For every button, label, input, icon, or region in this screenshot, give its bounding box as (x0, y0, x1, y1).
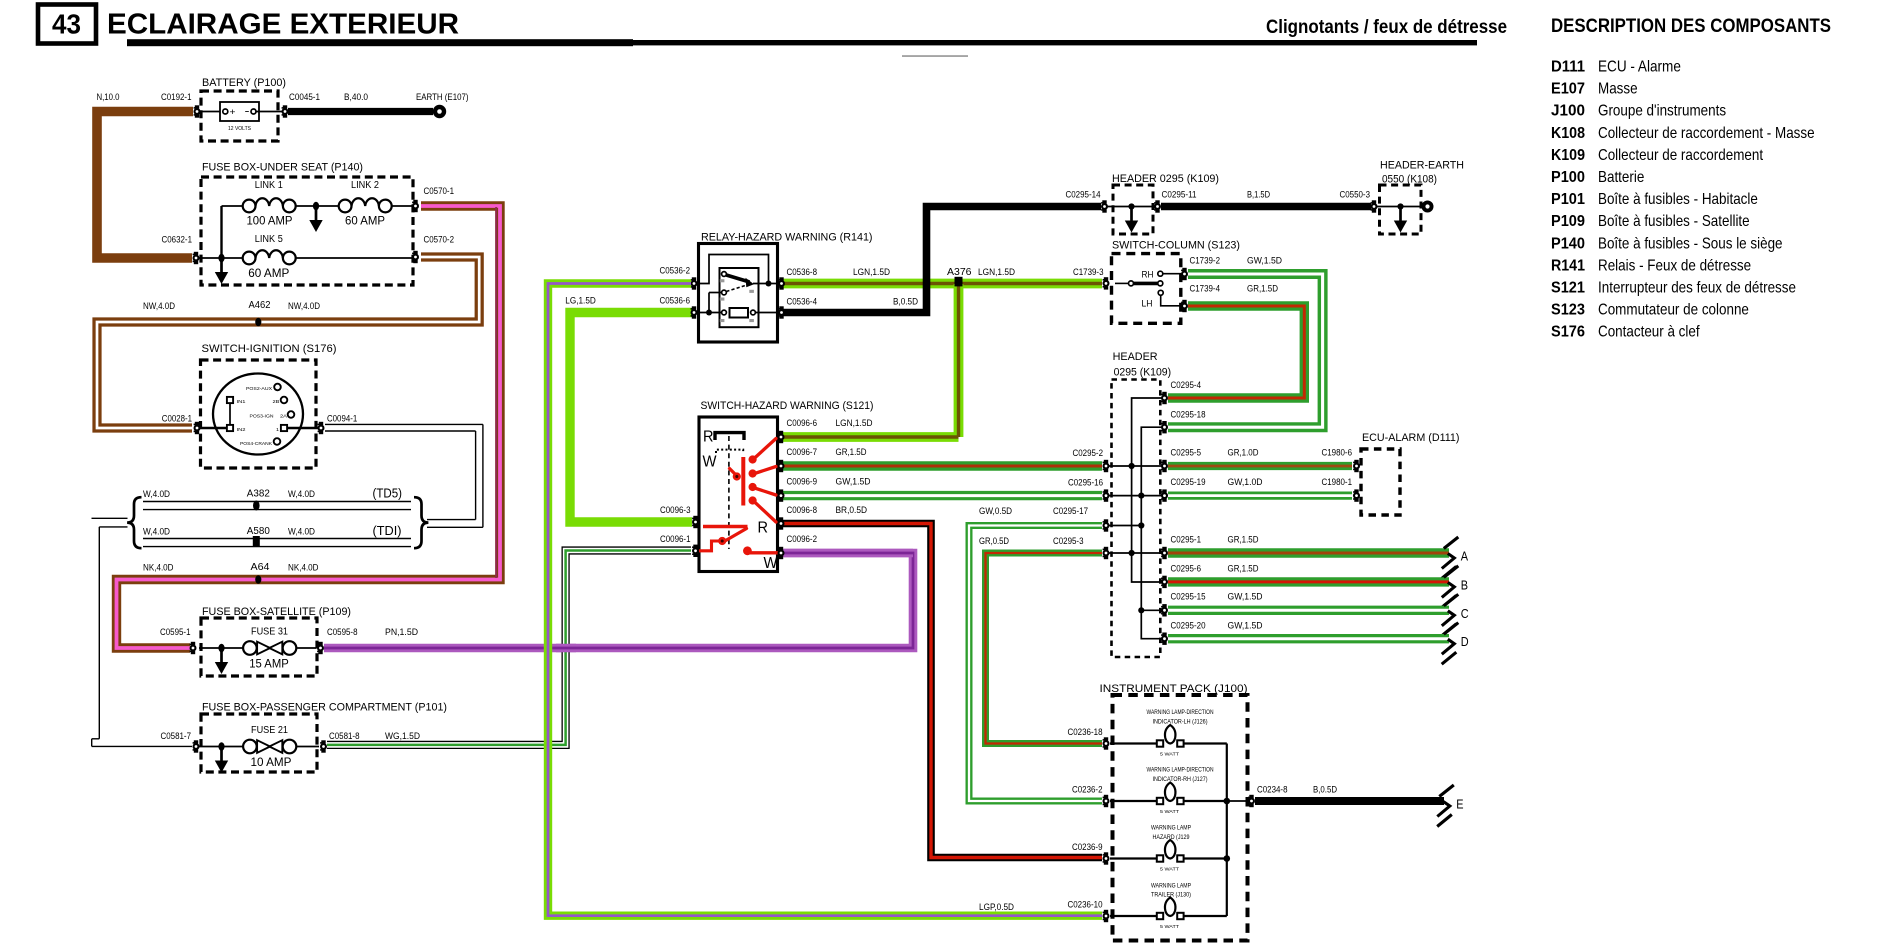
svg-text:E107: E107 (1551, 81, 1585, 98)
node A382 (253, 501, 260, 511)
svg-text:Commutateur de colonne: Commutateur de colonne (1598, 302, 1749, 319)
connector C1739-4 (1181, 300, 1188, 312)
connector C1739-3 (1103, 277, 1110, 289)
wire NK vertical blend edge (495, 207, 497, 578)
svg-text:EARTH (E107): EARTH (E107) (416, 92, 469, 102)
svg-text:LH: LH (1142, 299, 1153, 309)
node A462 (255, 318, 261, 327)
svg-text:POS2-AUX: POS2-AUX (246, 386, 272, 391)
svg-text:GW,1.5D: GW,1.5D (1228, 592, 1263, 602)
connector C0536-6 (691, 306, 698, 318)
svg-text:C0570-1: C0570-1 (424, 186, 455, 196)
connector C0581-7 (193, 740, 200, 752)
svg-text:Collecteur de raccordement - M: Collecteur de raccordement - Masse (1598, 125, 1815, 142)
off-page arrow B (1442, 566, 1459, 608)
svg-text:GW,1.5D: GW,1.5D (1247, 256, 1282, 266)
svg-text:C0550-3: C0550-3 (1340, 190, 1371, 200)
relay contact alternate position dashed (722, 285, 749, 295)
svg-text:GW,1.5D: GW,1.5D (1228, 621, 1263, 631)
wire PN,1.5D over WG crossing patch (556, 644, 576, 653)
svg-text:GR,1.5D: GR,1.5D (836, 447, 867, 457)
svg-text:C0581-8: C0581-8 (329, 731, 360, 741)
svg-text:C0536-8: C0536-8 (787, 267, 818, 277)
svg-text:10 AMP: 10 AMP (251, 755, 292, 769)
svg-text:Boîte à fusibles - Satellite: Boîte à fusibles - Satellite (1598, 213, 1750, 230)
switch-column S123 box (1112, 240, 1241, 324)
link IN1-IN2 (229, 403, 231, 424)
wire NW,4.0D ignition feed (97, 257, 479, 428)
fusible link LINK 2 60 AMP (339, 180, 392, 228)
svg-text:C0295-17: C0295-17 (1053, 506, 1088, 516)
connector C0570-2 (412, 251, 419, 263)
svg-text:WARNING LAMP-DIRECTION: WARNING LAMP-DIRECTION (1147, 767, 1214, 774)
connector C0550-3 (1371, 200, 1378, 212)
svg-text:Relais - Feux de détresse: Relais - Feux de détresse (1598, 257, 1751, 274)
svg-text:C0094-1: C0094-1 (327, 414, 357, 424)
connector C0536-4 (778, 306, 785, 318)
wire GW,1.5D to off-page D (1168, 634, 1449, 643)
svg-text:C0236-2: C0236-2 (1072, 785, 1103, 795)
K109 top junction (1128, 203, 1134, 209)
fuse box-satellite P109 (201, 606, 351, 676)
svg-text:C0595-1: C0595-1 (160, 627, 191, 637)
svg-text:(TD5): (TD5) (373, 487, 403, 501)
svg-text:SWITCH-COLUMN (S123): SWITCH-COLUMN (S123) (1112, 240, 1240, 252)
svg-text:LG,1.5D: LG,1.5D (565, 296, 596, 306)
svg-text:15 AMP: 15 AMP (249, 657, 289, 671)
wire GW,1.5D hazard switch to header (781, 491, 1102, 500)
connector C0295-6 (1161, 576, 1168, 588)
svg-text:P109: P109 (1551, 213, 1585, 230)
terminal POS4-CRANK (274, 438, 281, 445)
svg-text:C0295-6: C0295-6 (1171, 564, 1202, 574)
svg-text:S176: S176 (1551, 324, 1585, 341)
wire GR,1.0D header to ECU-alarm (1168, 462, 1352, 470)
svg-text:Interrupteur des feux de détre: Interrupteur des feux de détresse (1598, 280, 1796, 297)
K109 internal bus GR side (1107, 398, 1165, 582)
warning lamp-direction indicator-RH J127 (1147, 767, 1214, 815)
svg-text:INDICATOR-LH (J126): INDICATOR-LH (J126) (1153, 718, 1208, 725)
svg-text:BATTERY (P100): BATTERY (P100) (202, 77, 286, 89)
svg-text:W,4.0D: W,4.0D (143, 527, 170, 537)
K109 top ground arrow (1125, 209, 1138, 233)
page header block (38, 5, 1831, 57)
svg-text:Batterie: Batterie (1598, 169, 1644, 186)
connector C0595-8 (317, 642, 324, 654)
svg-text:A64: A64 (251, 562, 270, 573)
connector C0236-9 (1103, 852, 1110, 864)
wire GW,1.0D header to ECU-alarm (1168, 492, 1352, 500)
connector C1980-1 (1353, 489, 1360, 501)
svg-text:5 WATT: 5 WATT (1160, 752, 1179, 757)
svg-text:C0295-1: C0295-1 (1171, 535, 1202, 545)
S123 LH contact (1142, 290, 1182, 308)
wire into IN2 (200, 427, 227, 429)
svg-text:ECLAIRAGE EXTERIEUR: ECLAIRAGE EXTERIEUR (107, 9, 459, 41)
wire PN,1.5D fuse31 to hazard switch (324, 553, 913, 648)
relay component box (720, 268, 759, 327)
svg-text:LINK 5: LINK 5 (255, 234, 283, 245)
K108 junction (1397, 203, 1403, 209)
junction in P140 on link1 output (313, 202, 319, 211)
svg-text:C0295-5: C0295-5 (1171, 448, 1202, 458)
wire W,4.0D TDI variant (143, 539, 411, 547)
K109 GW bus junction C0295-15 (1138, 607, 1144, 613)
S121 W position dotted bracket (716, 450, 743, 453)
svg-text:Groupe d'instruments: Groupe d'instruments (1598, 103, 1726, 120)
connector C0295-5 (1161, 460, 1168, 472)
warning lamp hazard J129 (1151, 825, 1191, 872)
svg-text:R141: R141 (1551, 257, 1585, 274)
svg-text:43: 43 (52, 9, 81, 40)
connector C0295-19 (1161, 489, 1168, 501)
left brace of engine variant group (127, 497, 141, 548)
relay coil feed junction (706, 310, 712, 316)
svg-text:P140: P140 (1551, 235, 1585, 252)
terminal IN2 (227, 425, 233, 431)
svg-text:N,10.0: N,10.0 (97, 92, 120, 102)
svg-text:GR,1.0D: GR,1.0D (1228, 448, 1259, 458)
svg-text:POS3-IGN: POS3-IGN (250, 413, 274, 418)
svg-text:C0632-1: C0632-1 (162, 235, 193, 245)
svg-text:W,4.0D: W,4.0D (288, 489, 315, 499)
svg-text:Clignotants / feux de détresse: Clignotants / feux de détresse (1266, 17, 1507, 38)
svg-text:Boîte à fusibles - Sous le siè: Boîte à fusibles - Sous le siège (1598, 235, 1783, 252)
svg-text:NW,4.0D: NW,4.0D (143, 301, 175, 311)
terminal POS2-AUX (274, 384, 281, 391)
svg-text:D111: D111 (1551, 59, 1585, 76)
warning lamp-direction indicator-LH J126 (1147, 709, 1214, 757)
S121 red contact dots (749, 455, 757, 504)
junction in P140 at link5 input (218, 254, 224, 263)
svg-text:C0096-9: C0096-9 (787, 477, 818, 487)
svg-text:K108: K108 (1551, 125, 1585, 142)
svg-text:Masse: Masse (1598, 81, 1638, 98)
node A376 (955, 277, 963, 287)
K108 earth stud (1422, 201, 1434, 213)
K108 internal wire (1377, 206, 1422, 208)
svg-text:A376: A376 (947, 267, 972, 278)
wire GR,1.5D to off-page A (1168, 548, 1449, 557)
K109 GW bus junction C0295-17 (1138, 522, 1144, 528)
svg-text:W: W (764, 555, 779, 572)
svg-text:60 AMP: 60 AMP (248, 266, 289, 280)
fuse FUSE 31 15 AMP (243, 626, 297, 671)
connector C0096-8 (778, 517, 785, 529)
node A580 (253, 536, 260, 547)
svg-text:P101: P101 (1551, 191, 1585, 208)
svg-text:5 WATT: 5 WATT (1160, 924, 1179, 929)
connector C1980-6 (1353, 460, 1360, 472)
svg-text:2B: 2B (273, 399, 280, 404)
connector C0096-3 (692, 516, 699, 528)
connector C0295-16 (1103, 489, 1110, 501)
connector C0295-18 (1161, 421, 1168, 433)
wire BR,0.5D hazard switch to instrument pack (781, 524, 1102, 858)
wire GR,1.5D to off-page B (1168, 577, 1449, 586)
svg-text:PN,1.5D: PN,1.5D (385, 627, 418, 637)
connector C0295-4 (1161, 392, 1168, 404)
right brace of engine variant group (414, 497, 428, 548)
svg-text:FUSE BOX-PASSENGER COMPARTMENT: FUSE BOX-PASSENGER COMPARTMENT (P101) (202, 702, 447, 714)
connector C0236-10 (1103, 910, 1110, 922)
svg-text:12 VOLTS: 12 VOLTS (228, 126, 252, 132)
svg-text:LGN,1.5D: LGN,1.5D (836, 418, 873, 428)
terminal 2B (281, 397, 288, 404)
warning lamp trailer J130 (1151, 882, 1191, 929)
svg-text:FUSE 31: FUSE 31 (251, 626, 288, 638)
connector C0632-1 (193, 252, 200, 264)
relay coil (722, 308, 756, 318)
off-page arrow E (1437, 785, 1454, 827)
internal feed wires P140 (199, 206, 412, 258)
svg-text:A: A (1461, 549, 1469, 564)
svg-text:FUSE BOX-SATELLITE (P109): FUSE BOX-SATELLITE (P109) (202, 606, 351, 618)
svg-text:NK,4.0D: NK,4.0D (143, 563, 174, 573)
svg-text:C0096-6: C0096-6 (787, 418, 818, 428)
svg-text:5 WATT: 5 WATT (1160, 809, 1179, 814)
connector C0595-1 (190, 642, 197, 654)
switch-hazard warning S121 box (699, 400, 874, 572)
svg-text:C0028-1: C0028-1 (162, 414, 192, 424)
wire LG,1.5D relay coil to hazard switch (570, 313, 694, 523)
svg-text:100 AMP: 100 AMP (247, 214, 293, 228)
svg-text:C0295-15: C0295-15 (1171, 592, 1206, 602)
component description list (1551, 59, 1815, 341)
svg-text:S121: S121 (1551, 280, 1585, 297)
S121 lower diagonal to pivot (724, 529, 747, 542)
fuse box passenger internal leads (199, 746, 319, 748)
svg-text:IN1: IN1 (237, 399, 247, 404)
svg-text:BR,0.5D: BR,0.5D (836, 505, 868, 515)
svg-text:C0595-8: C0595-8 (327, 627, 358, 637)
svg-text:C0045-1: C0045-1 (289, 92, 320, 102)
J100 bus junction at RH lamp (1224, 798, 1231, 805)
K109 internal bus GW side (1107, 427, 1165, 639)
wire GW,1.5D to off-page C (1168, 606, 1449, 615)
svg-text:Contacteur à clef: Contacteur à clef (1598, 324, 1700, 341)
S121 R position bracket (715, 433, 744, 440)
fuse box-passenger compartment P101 (201, 702, 447, 773)
K109 top internal wire (1107, 206, 1154, 208)
svg-text:GW,1.0D: GW,1.0D (1228, 477, 1263, 487)
svg-text:FUSE 21: FUSE 21 (251, 724, 288, 736)
svg-text:GR,1.5D: GR,1.5D (1228, 535, 1259, 545)
switch-ignition S176 (201, 343, 337, 468)
connector C0536-8 (778, 277, 785, 289)
relay internal coil feed (697, 293, 779, 313)
wire B,1.5D header to header-earth (1161, 203, 1371, 211)
fuse FUSE 21 10 AMP (243, 724, 297, 769)
connector C0295-2 (1103, 460, 1110, 472)
wire N,10.0 battery feed (97, 112, 193, 259)
connector C0236-2 (1103, 795, 1110, 807)
node A64 (255, 575, 261, 584)
svg-text:WARNING LAMP: WARNING LAMP (1151, 825, 1191, 832)
svg-text:W,4.0D: W,4.0D (288, 527, 315, 537)
svg-text:C0295-3: C0295-3 (1053, 536, 1084, 546)
svg-text:INDICATOR-RH (J127): INDICATOR-RH (J127) (1153, 776, 1208, 783)
J100 internal lamp bus (1110, 744, 1248, 917)
connector C0295-20 (1161, 633, 1168, 645)
relay internal output junction (766, 281, 772, 287)
svg-text:ECU-ALARM (D111): ECU-ALARM (D111) (1362, 432, 1460, 444)
wire B,40.0 battery earth lead (288, 108, 433, 115)
svg-text:GW,1.5D: GW,1.5D (836, 477, 871, 487)
wire LGN,1.5D branch to hazard switch C0096-6 (781, 284, 959, 437)
connector C0192-1 (194, 105, 201, 117)
wire B,0.5D instrument pack to off-page E (1255, 797, 1444, 805)
wire from terminal 1 to C0094-1 (287, 427, 318, 429)
svg-text:C0295-19: C0295-19 (1171, 477, 1206, 487)
svg-text:-: - (245, 106, 250, 118)
svg-text:ECU - Alarme: ECU - Alarme (1598, 59, 1681, 76)
svg-text:C0570-2: C0570-2 (424, 235, 455, 245)
svg-text:W: W (703, 454, 718, 471)
svg-text:C1739-3: C1739-3 (1073, 267, 1104, 277)
wire NK,4.0D hazard feed (117, 206, 501, 648)
wire GR,1.5D hazard switch to header (781, 461, 1102, 470)
svg-text:GW,0.5D: GW,0.5D (979, 506, 1012, 516)
svg-text:(TDI): (TDI) (373, 524, 402, 538)
connector C0295-15 (1161, 604, 1168, 616)
S121 dashed actuator line (728, 436, 730, 549)
ground arrow below fuse 31 junction (215, 650, 228, 674)
svg-text:LINK 2: LINK 2 (351, 180, 379, 191)
terminal IN1 (227, 397, 233, 403)
svg-text:R: R (703, 429, 714, 446)
svg-text:D: D (1461, 634, 1469, 649)
connector C0094-1 (318, 422, 325, 434)
small grey tick line (902, 55, 968, 57)
junction at fuse 21 input (218, 742, 224, 751)
svg-text:C0236-18: C0236-18 (1068, 727, 1103, 737)
svg-text:2A: 2A (280, 414, 287, 419)
svg-text:C0096-1: C0096-1 (660, 534, 691, 544)
svg-text:S123: S123 (1551, 302, 1585, 319)
svg-text:C0295-14: C0295-14 (1066, 190, 1101, 200)
svg-text:HEADER-EARTH: HEADER-EARTH (1380, 160, 1464, 172)
svg-text:+: + (230, 107, 236, 118)
connector C0570-1 (412, 200, 419, 212)
terminal 1 (281, 425, 287, 431)
wire W,4.0D common stub to fusebox P101 (92, 518, 193, 746)
header 0295 K109 top box (1112, 173, 1219, 234)
battery P100 (199, 77, 286, 141)
svg-text:NW,4.0D: NW,4.0D (288, 301, 320, 311)
connector C0295-14 (1101, 200, 1108, 212)
svg-text:SWITCH-IGNITION (S176): SWITCH-IGNITION (S176) (202, 343, 337, 355)
wire GW,0.5D header to instrument pack lamp RH (969, 526, 1102, 802)
connector C0581-8 (320, 740, 327, 752)
junction at fuse 31 input (218, 644, 224, 653)
connector C1739-2 (1181, 268, 1188, 280)
fusible link LINK 1 100 AMP (243, 180, 296, 228)
svg-text:HEADER 0295 (K109): HEADER 0295 (K109) (1112, 173, 1219, 185)
terminal 2A (288, 411, 295, 418)
off-page arrow C (1442, 594, 1459, 636)
K109 GR bus junction C0295-2/5 (1129, 463, 1135, 469)
K109 GR bus junction C0295-3/1 (1129, 550, 1135, 556)
svg-text:Collecteur de raccordement: Collecteur de raccordement (1598, 147, 1764, 164)
svg-text:C1980-1: C1980-1 (1322, 477, 1353, 487)
off-page arrow D (1442, 623, 1459, 665)
S123 RH contact (1142, 270, 1182, 280)
svg-text:E: E (1456, 797, 1464, 812)
svg-text:RELAY-HAZARD WARNING (R141): RELAY-HAZARD WARNING (R141) (701, 232, 873, 244)
svg-text:K109: K109 (1551, 147, 1585, 164)
relay contact blade (722, 272, 754, 288)
svg-text:C0536-4: C0536-4 (787, 297, 818, 307)
svg-text:C0536-6: C0536-6 (660, 296, 691, 306)
svg-text:C0536-2: C0536-2 (660, 266, 691, 276)
svg-text:5 WATT: 5 WATT (1160, 867, 1179, 872)
connector C0295-3 (1103, 547, 1110, 559)
svg-text:A462: A462 (249, 300, 271, 311)
connector C0295-17 (1103, 519, 1110, 531)
svg-text:C0234-8: C0234-8 (1257, 785, 1288, 795)
svg-text:60 AMP: 60 AMP (345, 214, 385, 228)
svg-text:B,1.5D: B,1.5D (1247, 190, 1270, 200)
svg-text:C0295-20: C0295-20 (1171, 621, 1206, 631)
svg-text:C0295-18: C0295-18 (1171, 410, 1206, 420)
svg-text:C0096-2: C0096-2 (787, 534, 818, 544)
svg-text:C0236-10: C0236-10 (1068, 900, 1103, 910)
svg-text:C1739-4: C1739-4 (1190, 284, 1221, 294)
header 0295 K109 main box (1112, 351, 1172, 657)
connector C0096-9 (778, 489, 785, 501)
S121 pivot finger (730, 469, 739, 478)
svg-text:C0096-3: C0096-3 (660, 505, 691, 515)
svg-text:C1739-2: C1739-2 (1190, 256, 1221, 266)
svg-text:HEADER: HEADER (1113, 351, 1158, 363)
connector C0295-1 (1161, 547, 1168, 559)
connector C0096-2 (778, 547, 785, 559)
wire W,4.0D from C0094-1 to engine variant group (325, 424, 483, 527)
connector C0096-7 (778, 460, 785, 472)
svg-text:C0236-9: C0236-9 (1072, 842, 1103, 852)
K109 GW bus junction C0295-16/19 (1138, 493, 1144, 499)
svg-text:SWITCH-HAZARD WARNING (S121): SWITCH-HAZARD WARNING (S121) (701, 400, 874, 412)
wire GR,1.5D switch column to header (1168, 306, 1304, 398)
connector C0028-1 (194, 422, 201, 434)
relay internal feed loop (697, 255, 779, 284)
svg-text:Boîte à fusibles - Habitacle: Boîte à fusibles - Habitacle (1598, 191, 1758, 208)
wire WG,1.5D fuse21 to hazard switch (327, 551, 691, 745)
svg-text:GR,1.5D: GR,1.5D (1247, 284, 1278, 294)
connector C0536-2 (691, 277, 698, 289)
svg-text:C0295-4: C0295-4 (1171, 380, 1202, 390)
svg-text:A382: A382 (247, 489, 270, 500)
ground arrow below link5 junction (215, 260, 228, 284)
svg-text:NK,4.0D: NK,4.0D (288, 563, 319, 573)
svg-text:RH: RH (1142, 270, 1154, 280)
svg-text:P100: P100 (1551, 169, 1585, 186)
connector C0236-18 (1103, 737, 1110, 749)
svg-text:LINK 1: LINK 1 (255, 180, 283, 191)
fuse box-under seat P140 (201, 162, 413, 286)
svg-text:WG,1.5D: WG,1.5D (385, 731, 420, 741)
title underline bar (127, 39, 633, 46)
J100 bus junction at hazard lamp (1224, 855, 1231, 862)
svg-text:W,4.0D: W,4.0D (143, 489, 170, 499)
svg-text:LGN,1.5D: LGN,1.5D (978, 267, 1015, 277)
svg-text:WARNING LAMP-DIRECTION: WARNING LAMP-DIRECTION (1147, 709, 1214, 716)
relay-hazard warning R141 (699, 232, 873, 343)
ground arrow below fuse 21 junction (215, 749, 228, 773)
svg-text:POS4-CRANK: POS4-CRANK (240, 441, 272, 446)
earth stud EARTH (E107) (433, 105, 446, 118)
